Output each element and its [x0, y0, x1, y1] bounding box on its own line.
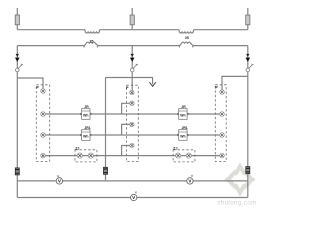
- fuse FU1 (top left): [15, 8, 19, 30]
- kWh meter W4 (rail2 right): [178, 126, 188, 140]
- transformer T2 primary winding: [179, 30, 194, 33]
- plug contact 1C: [41, 133, 46, 138]
- fuse FU3 (top right): [246, 8, 250, 30]
- spare feeder arrow: [149, 78, 155, 87]
- branch wire to cubicle 3: [222, 76, 248, 89]
- control rail 3: [43, 155, 222, 157]
- plug contact 3C: [220, 133, 225, 138]
- svg-text:Wh: Wh: [83, 114, 88, 118]
- plug contact 2C: [130, 122, 134, 126]
- transformer T2 secondary winding: [180, 42, 193, 46]
- wire LV bus segment right: [193, 45, 248, 47]
- wire LV bus segment left: [17, 45, 84, 47]
- plug contact 2A: [130, 90, 134, 94]
- disconnect switch QS3: [246, 64, 254, 72]
- disconnect switch QS1: [15, 64, 23, 72]
- cubicle 1 dashed box: [36, 85, 49, 162]
- relay ZJ box right: [173, 146, 195, 162]
- kWh meter W2 (rail2 left): [81, 126, 91, 140]
- PT branch wire down: [105, 78, 107, 181]
- feeder 1 lower drop: [16, 72, 18, 198]
- feeder 3 lower drop: [247, 72, 249, 198]
- feeder 3 drop (right): [247, 46, 249, 69]
- fuse FU2 (top middle): [130, 8, 134, 30]
- voltmeter V2: [131, 192, 137, 201]
- fuse FU5 (bottom middle): [104, 167, 108, 174]
- wire HV bus segment left: [17, 29, 85, 31]
- plug contact 2D: [130, 143, 134, 147]
- svg-text:P: P: [126, 86, 129, 90]
- tap wire row4 (middle cubicle): [122, 146, 130, 156]
- svg-text:35: 35: [185, 36, 189, 40]
- tee wire of feeder 2: [106, 77, 153, 79]
- wire LV bus segment middle: [98, 45, 180, 47]
- bottom rail A: [17, 180, 248, 182]
- svg-text:Wh: Wh: [83, 135, 88, 139]
- T1 secondary end ticks: [84, 46, 98, 48]
- plug contact 3D: [220, 153, 225, 158]
- relay contact ZJ-R2: [186, 153, 191, 158]
- disconnect switch QS2: [130, 64, 138, 72]
- svg-text:JR1: JR1: [84, 126, 90, 130]
- svg-text:JR1: JR1: [181, 126, 187, 130]
- cubicle 2 dashed box: [126, 85, 138, 161]
- svg-text:zhulong.com: zhulong.com: [217, 200, 256, 207]
- plug contact 2B: [130, 101, 134, 105]
- svg-text:JR: JR: [181, 105, 186, 109]
- tap wire row3 (middle cubicle): [122, 124, 130, 135]
- relay contact ZJ-L2: [88, 153, 93, 158]
- voltmeter V3: [187, 175, 193, 184]
- svg-text:JR: JR: [84, 105, 89, 109]
- plug contact 3B: [220, 112, 225, 117]
- plug contact 1B: [41, 112, 46, 117]
- feeder 2 drop (middle): [131, 46, 133, 69]
- svg-text:Wh: Wh: [180, 114, 185, 118]
- plug contact 1A: [41, 89, 46, 94]
- wire HV bus segment middle: [100, 29, 179, 31]
- fuse FU4 (bottom left): [15, 168, 19, 175]
- watermark logo pinwheel: [228, 169, 251, 190]
- relay contact ZJ-R1: [176, 153, 181, 158]
- feeder 1 drop (left): [16, 46, 18, 69]
- transformer T1 secondary winding: [84, 42, 97, 46]
- branch wire to cubicle 1: [17, 78, 43, 89]
- kWh meter W1 (rail1 left): [81, 105, 91, 119]
- cubicle 3 dashed box: [215, 85, 226, 162]
- plug contact 1D: [41, 153, 46, 158]
- svg-text:P: P: [36, 86, 39, 90]
- relay ZJ box left: [75, 146, 97, 162]
- relay contact ZJ-L1: [77, 153, 82, 158]
- kWh meter W3 (rail1 right): [178, 105, 188, 119]
- svg-text:Wh: Wh: [180, 135, 185, 139]
- T2 secondary end ticks: [179, 46, 193, 48]
- voltmeter V1: [56, 175, 62, 184]
- svg-text:P: P: [215, 86, 218, 90]
- feeder 3 arrows: [246, 54, 249, 57]
- transformer T1 primary winding: [85, 30, 100, 33]
- control rail 2: [43, 134, 222, 136]
- bottom rail B: [17, 197, 248, 199]
- svg-text:35: 35: [90, 40, 94, 44]
- feeder 1 arrows: [16, 54, 19, 57]
- tap wire row2 (middle cubicle): [122, 103, 130, 114]
- feeder 2 drop to cubicle 2: [131, 72, 133, 91]
- fuse FU6 (bottom right): [246, 167, 250, 174]
- svg-text:ZJ: ZJ: [173, 146, 177, 150]
- control rail 1: [43, 113, 222, 115]
- feeder 2 arrows: [131, 54, 134, 57]
- svg-text:ZJ: ZJ: [75, 146, 79, 150]
- wire HV bus segment right: [194, 29, 248, 31]
- plug contact 3A: [220, 90, 225, 95]
